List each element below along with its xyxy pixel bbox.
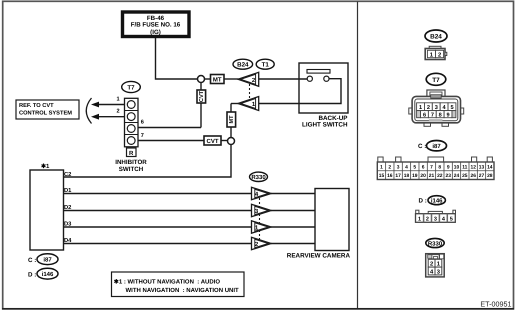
svg-text:B24: B24 [237, 62, 249, 69]
svg-text:D1: D1 [64, 188, 72, 194]
svg-text:C :: C : [418, 143, 426, 150]
svg-text:F/B FUSE NO. 16: F/B FUSE NO. 16 [131, 22, 181, 29]
svg-text:13: 13 [479, 164, 485, 170]
svg-text:CVT: CVT [199, 90, 205, 102]
svg-text:6: 6 [422, 164, 425, 170]
svg-text:2: 2 [117, 109, 120, 115]
svg-text:5: 5 [413, 164, 416, 170]
svg-text:21: 21 [429, 173, 435, 179]
svg-text:14: 14 [487, 164, 493, 170]
svg-text:17: 17 [395, 173, 401, 179]
svg-text:LIGHT SWITCH: LIGHT SWITCH [302, 122, 348, 129]
svg-text:5: 5 [450, 217, 453, 223]
svg-text:22: 22 [437, 173, 443, 179]
svg-text:2: 2 [427, 105, 430, 111]
svg-text:1: 1 [419, 105, 422, 111]
svg-text:(IG): (IG) [150, 29, 161, 36]
svg-text:7: 7 [141, 133, 144, 139]
svg-text:12: 12 [470, 164, 476, 170]
svg-text:MT: MT [229, 115, 235, 124]
svg-text:i87: i87 [432, 143, 441, 150]
svg-text:6: 6 [423, 112, 426, 118]
svg-text:15: 15 [379, 173, 385, 179]
svg-text:28: 28 [487, 173, 493, 179]
svg-text:i146: i146 [431, 198, 443, 205]
svg-text:R: R [129, 150, 134, 157]
svg-text:1: 1 [380, 164, 383, 170]
svg-text:D4: D4 [64, 238, 72, 244]
svg-text:2: 2 [438, 52, 441, 59]
svg-text:1: 1 [418, 217, 421, 223]
svg-text:9: 9 [446, 112, 449, 118]
svg-text:7: 7 [430, 164, 433, 170]
svg-text:WITH NAVIGATION : NAVIGATION: WITH NAVIGATION : NAVIGATION UNIT [126, 287, 240, 294]
svg-text:10: 10 [454, 164, 460, 170]
svg-text:T1: T1 [262, 62, 270, 69]
svg-text:8: 8 [438, 164, 441, 170]
svg-text:CONTROL SYSTEM: CONTROL SYSTEM [19, 110, 72, 116]
svg-text:23: 23 [445, 173, 451, 179]
svg-text:✱1: ✱1 [41, 163, 50, 170]
svg-text:16: 16 [387, 173, 393, 179]
svg-text:3: 3 [397, 164, 400, 170]
svg-text:D :: D : [419, 198, 427, 205]
svg-text:19: 19 [412, 173, 418, 179]
svg-text:24: 24 [454, 173, 460, 179]
svg-text:ET-00951: ET-00951 [480, 300, 511, 309]
svg-text:SWITCH: SWITCH [119, 166, 144, 173]
svg-text:R330: R330 [428, 240, 443, 247]
svg-text:i146: i146 [42, 271, 54, 278]
svg-text:B24: B24 [430, 34, 442, 41]
svg-text:20: 20 [420, 173, 426, 179]
svg-text:T7: T7 [432, 77, 440, 84]
svg-text:1: 1 [117, 96, 120, 102]
svg-text:INHIBITOR: INHIBITOR [115, 159, 147, 166]
svg-text:8: 8 [439, 112, 442, 118]
svg-text:2: 2 [430, 261, 433, 268]
svg-text:D2: D2 [64, 204, 71, 211]
svg-text:D3: D3 [64, 221, 72, 228]
svg-text:D :: D : [28, 272, 36, 279]
svg-text:26: 26 [470, 173, 476, 179]
svg-text:REARVIEW CAMERA: REARVIEW CAMERA [287, 253, 351, 260]
svg-text:i87: i87 [43, 257, 52, 264]
svg-text:CVT: CVT [207, 138, 219, 145]
svg-text:REF. TO CVT: REF. TO CVT [19, 103, 54, 109]
svg-text:2: 2 [388, 164, 391, 170]
svg-text:C2: C2 [64, 171, 71, 178]
svg-text:25: 25 [462, 173, 468, 179]
svg-text:3: 3 [434, 217, 437, 223]
svg-text:R330: R330 [251, 174, 266, 181]
svg-text:11: 11 [462, 164, 467, 170]
svg-text:4: 4 [405, 164, 408, 170]
svg-text:5: 5 [450, 105, 453, 111]
svg-text:T7: T7 [127, 84, 135, 91]
svg-text:2: 2 [426, 217, 429, 223]
svg-text:3: 3 [435, 105, 438, 111]
svg-text:9: 9 [447, 164, 450, 170]
svg-text:27: 27 [479, 173, 485, 179]
svg-text:18: 18 [404, 173, 410, 179]
svg-text:MT: MT [213, 77, 222, 84]
svg-text:6: 6 [141, 119, 144, 125]
svg-text:7: 7 [431, 112, 434, 118]
svg-text:✱1 : WITHOUT NAVIGATION : AUD: ✱1 : WITHOUT NAVIGATION : AUDIO [114, 278, 221, 285]
svg-text:C :: C : [28, 257, 36, 264]
